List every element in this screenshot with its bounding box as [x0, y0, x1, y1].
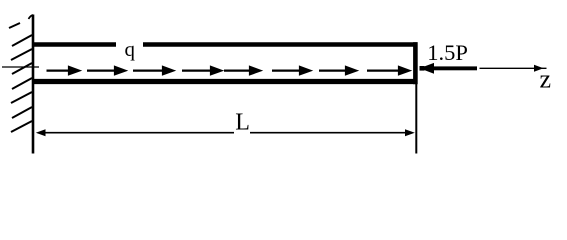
svg-text:L: L [235, 109, 250, 135]
svg-text:q: q [125, 37, 136, 61]
svg-text:z: z [540, 64, 552, 93]
svg-text:1.5P: 1.5P [427, 40, 468, 65]
